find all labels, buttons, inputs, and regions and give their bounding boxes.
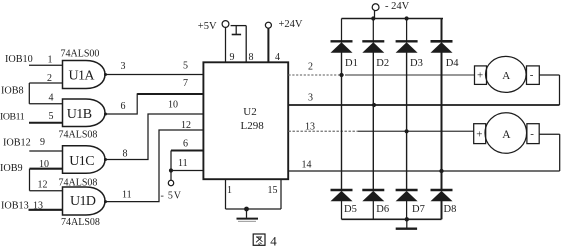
svg-text:D5: D5: [344, 204, 357, 215]
svg-text:10: 10: [168, 100, 178, 111]
diode D6: [362, 190, 389, 215]
diode D3: [396, 41, 423, 69]
svg-text:D6: D6: [376, 204, 389, 215]
node IOB11 label: [0, 111, 25, 122]
svg-text:11: 11: [122, 190, 132, 201]
svg-text:- 5V: - 5V: [161, 191, 182, 202]
gate U1C 74ALS08: [59, 146, 108, 189]
pin 11 label U2: [178, 158, 188, 169]
svg-text:8: 8: [249, 52, 254, 63]
svg-text:6: 6: [121, 101, 126, 112]
wire U2 pin2 to motor M1 +: [289, 74, 346, 76]
svg-text:+: +: [477, 70, 483, 82]
junction col3 row13: [405, 129, 409, 133]
svg-text:4: 4: [275, 52, 280, 63]
wire U2 pin3 motor M1 return: [289, 104, 560, 106]
ground pin8: [232, 26, 241, 35]
svg-text:A: A: [502, 129, 511, 141]
svg-text:U1B: U1B: [67, 107, 92, 122]
wire IOB9 to U1C pin10: [30, 168, 63, 170]
pin 4 label: [49, 93, 54, 104]
node 6 label: [121, 101, 126, 112]
svg-text:12: 12: [181, 120, 191, 131]
wire enable tie vertical: [170, 151, 172, 181]
wire M2 minus to right edge: [539, 133, 560, 135]
ground U2 sense: [237, 209, 259, 221]
wire U2 pin 6 enable: [171, 150, 204, 152]
junction bottom bus: [405, 217, 409, 221]
gate U1A 74ALS00: [61, 49, 108, 89]
pin 14 label U2: [302, 160, 312, 171]
svg-text:12: 12: [38, 180, 48, 191]
svg-text:U1D: U1D: [70, 194, 96, 209]
wire column 3: [406, 19, 408, 42]
wire column 2: [372, 19, 374, 42]
svg-text:9: 9: [40, 137, 45, 148]
pin 8 label U2: [249, 52, 254, 63]
wire IOB9 to U1D pin12: [30, 190, 63, 192]
svg-text:2: 2: [308, 62, 313, 73]
svg-text:D7: D7: [412, 204, 425, 215]
pin 1 label: [48, 55, 53, 66]
svg-text:1: 1: [48, 55, 53, 66]
diode D1: [331, 41, 358, 69]
svg-text:A: A: [502, 70, 510, 82]
wire IOB13 to U1D pin13: [29, 209, 63, 211]
svg-text:5: 5: [49, 111, 54, 122]
node IOB10 label: [5, 54, 33, 65]
wire IOB8 to U1B pin4: [29, 103, 62, 105]
svg-text:+5V: +5V: [198, 21, 217, 32]
motor M2: [474, 113, 540, 154]
svg-text:6: 6: [183, 139, 188, 150]
node IOB8 label: [1, 86, 24, 97]
wire U2 pin 11 enable: [171, 170, 204, 172]
wire U1A output 3 to U2 pin 5: [106, 74, 204, 76]
wire U1C output 8 to U2 pin 10: [106, 114, 204, 160]
node IOB13 label: [1, 201, 29, 212]
wire U1B output 6 to U2 pin 7: [106, 94, 204, 114]
motor M1: [475, 56, 540, 92]
wire IOB9 branch vertical: [29, 169, 31, 191]
svg-text:IOB10: IOB10: [5, 54, 33, 65]
svg-text:9: 9: [230, 52, 235, 63]
junction enable tie: [169, 168, 173, 172]
pin 4 label U2: [275, 52, 280, 63]
pin 10 label U2: [168, 100, 178, 111]
junction bus col2: [371, 16, 375, 20]
wire M1 minus to right edge: [539, 74, 559, 76]
svg-text:3: 3: [121, 61, 126, 72]
ground diodes: [396, 219, 417, 228]
pin 12 label: [38, 180, 48, 191]
caption 图4 (tu character drawn as vector strokes): [253, 234, 277, 246]
wire IOB10 to U1A pin1: [29, 64, 63, 66]
wire pin 8 up: [245, 26, 247, 63]
pin 2 label: [47, 73, 52, 84]
svg-text:5: 5: [183, 61, 188, 72]
svg-text:-: -: [530, 128, 534, 140]
wire column 1: [341, 19, 343, 42]
svg-text:U2: U2: [243, 106, 256, 118]
node 8 label: [123, 149, 128, 160]
wire bottom bus: [342, 218, 442, 220]
svg-text:- 24V: - 24V: [385, 1, 410, 12]
pin 10 label: [39, 159, 49, 170]
terminal -5V: [168, 180, 173, 185]
gate U1B 74ALS08: [59, 99, 108, 141]
pin 6 label U2: [183, 139, 188, 150]
junction col2 row3: [372, 103, 376, 107]
pin 1 label U2: [227, 185, 232, 196]
wire IOB11 to U1B pin5: [29, 122, 63, 124]
node IOB12 label: [3, 138, 31, 149]
svg-text:+: +: [476, 129, 482, 141]
pin 5 label U2: [183, 61, 188, 72]
pin 15 label U2: [268, 185, 278, 196]
gate U1D 74ALS08: [61, 187, 107, 228]
wire +24V to pin 4: [267, 28, 269, 62]
wire top bus: [342, 18, 444, 20]
wire +5V to pin 9: [225, 27, 227, 62]
junction col1 row2: [339, 73, 343, 77]
wire pin 15 down: [280, 180, 282, 210]
terminal +24V rail: [372, 1, 409, 12]
wire +24V to bus: [374, 11, 376, 19]
junction col4 row14: [439, 169, 443, 173]
junction bus col3: [405, 16, 409, 20]
wire IOB12 to U1C pin9: [29, 150, 62, 152]
wire IOB8 branch vertical: [28, 83, 30, 104]
svg-text:7: 7: [183, 78, 188, 89]
IC U2 L298 dual H-bridge box: [203, 62, 288, 179]
svg-text:IOB11: IOB11: [0, 111, 25, 122]
diode D4: [431, 41, 460, 69]
svg-text:3: 3: [308, 93, 313, 104]
svg-text:1: 1: [227, 185, 232, 196]
svg-text:14: 14: [302, 160, 312, 171]
svg-text:74ALS00: 74ALS00: [61, 49, 100, 60]
diode D2: [362, 41, 389, 69]
wire IOB8 to U1A pin2: [29, 82, 62, 84]
svg-text:D1: D1: [345, 58, 358, 69]
wire column 4: [441, 19, 443, 42]
node IOB9 label: [0, 163, 23, 174]
svg-text:74ALS08: 74ALS08: [61, 217, 100, 228]
svg-text:4: 4: [49, 93, 54, 104]
svg-text:11: 11: [178, 158, 188, 169]
svg-text:IOB8: IOB8: [1, 86, 24, 97]
svg-text:74ALS08: 74ALS08: [59, 130, 98, 141]
wire pin 1 down: [225, 180, 227, 210]
svg-text:IOB12: IOB12: [3, 138, 31, 149]
terminal +5V: [198, 21, 229, 33]
diode D5: [331, 190, 357, 215]
svg-text:D4: D4: [446, 58, 460, 69]
svg-text:L298: L298: [241, 120, 265, 132]
pin 5 label: [49, 111, 54, 122]
terminal +24V (U2 pin4): [265, 19, 303, 30]
pin 13 label: [33, 201, 43, 212]
wire U1D output 11 to U2 pin 12: [106, 130, 204, 202]
pin 2 label U2: [308, 62, 313, 73]
wire U2 pin14 motor M2 return: [289, 170, 560, 172]
svg-text:+24V: +24V: [279, 19, 303, 30]
svg-text:U1A: U1A: [69, 68, 96, 83]
pin 7 label U2: [183, 78, 188, 89]
svg-text:D3: D3: [410, 58, 423, 69]
svg-text:D8: D8: [444, 204, 457, 215]
svg-text:8: 8: [123, 149, 128, 160]
wire sense join: [226, 208, 282, 210]
svg-text:15: 15: [268, 185, 278, 196]
node 3 label: [121, 61, 126, 72]
svg-text:2: 2: [47, 73, 52, 84]
pin 3 label U2: [308, 93, 313, 104]
svg-text:-: -: [530, 69, 534, 81]
node 11 label: [122, 190, 132, 201]
svg-text:IOB9: IOB9: [0, 163, 23, 174]
junction sense: [244, 207, 249, 212]
pin 12 label U2: [181, 120, 191, 131]
pin 13 label U2: [305, 122, 315, 133]
svg-text:IOB13: IOB13: [1, 201, 29, 212]
pin 9 label U2: [230, 52, 235, 63]
wire U2 pin13 to motor M2 +: [289, 130, 359, 132]
diode D8: [431, 190, 457, 215]
svg-text:U1C: U1C: [69, 154, 94, 169]
diode D7: [396, 190, 425, 215]
pin 9 label: [40, 137, 45, 148]
svg-text:4: 4: [270, 234, 277, 246]
svg-text:D2: D2: [376, 58, 389, 69]
